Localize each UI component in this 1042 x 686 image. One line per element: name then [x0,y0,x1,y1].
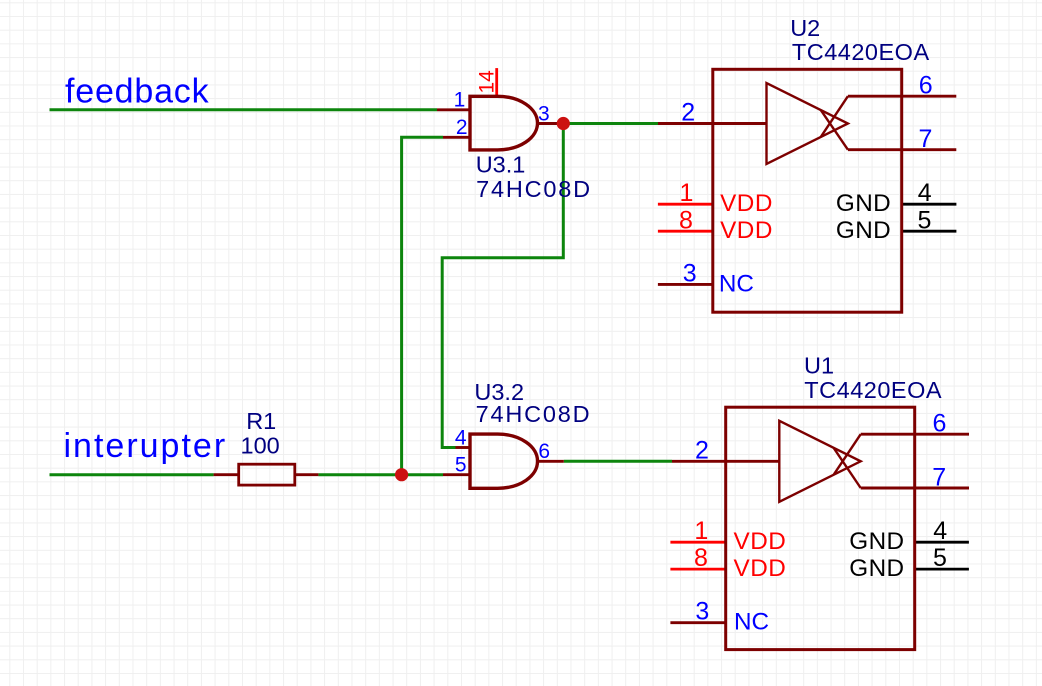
svg-text:VDD: VDD [720,190,773,217]
svg-text:GND: GND [836,217,891,244]
svg-text:7: 7 [932,463,946,491]
svg-text:GND: GND [849,528,904,555]
svg-text:GND: GND [849,555,904,582]
svg-text:U1: U1 [804,353,834,379]
svg-text:TC4420EOA: TC4420EOA [792,39,930,65]
svg-text:NC: NC [719,271,754,298]
svg-text:4: 4 [455,426,467,449]
svg-text:U3.1: U3.1 [476,151,526,177]
svg-text:1: 1 [680,179,694,207]
svg-text:6: 6 [538,440,550,463]
svg-text:3: 3 [695,598,709,626]
svg-text:VDD: VDD [734,528,787,555]
svg-text:100: 100 [241,432,280,458]
svg-text:TC4420EOA: TC4420EOA [804,377,942,403]
svg-text:8: 8 [694,544,708,572]
svg-text:U2: U2 [790,15,820,41]
svg-text:6: 6 [933,409,947,437]
svg-text:interupter: interupter [64,427,228,465]
svg-text:VDD: VDD [720,217,773,244]
svg-text:74HC08D: 74HC08D [476,401,592,427]
svg-text:8: 8 [679,206,693,234]
svg-text:14: 14 [475,70,498,94]
svg-text:GND: GND [836,190,891,217]
svg-text:5: 5 [933,544,947,572]
svg-text:VDD: VDD [734,555,787,582]
svg-text:5: 5 [918,206,932,234]
svg-text:1: 1 [454,88,466,111]
svg-text:R1: R1 [246,408,276,434]
svg-text:4: 4 [933,517,947,545]
svg-text:6: 6 [919,71,933,99]
svg-text:1: 1 [694,517,708,545]
svg-text:7: 7 [918,125,932,153]
svg-text:4: 4 [918,179,932,207]
svg-text:2: 2 [456,116,468,139]
svg-text:NC: NC [734,609,769,636]
svg-text:5: 5 [455,453,467,476]
svg-text:3: 3 [683,259,697,287]
svg-text:feedback: feedback [65,73,210,111]
svg-text:2: 2 [681,99,695,127]
svg-text:74HC08D: 74HC08D [476,176,592,202]
svg-text:2: 2 [695,436,709,464]
svg-text:3: 3 [538,103,550,126]
